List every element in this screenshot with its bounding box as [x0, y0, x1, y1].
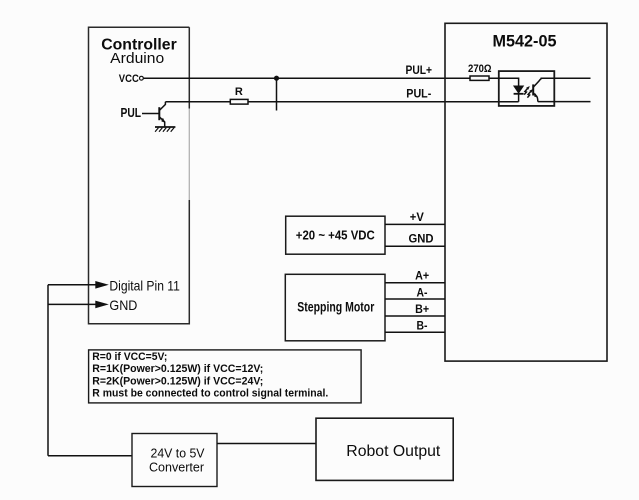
junction node on PUL+ line: [274, 76, 279, 81]
light arrows: [524, 86, 533, 97]
robot output box: [316, 418, 453, 480]
wire +V: [385, 223, 445, 225]
svg-text:24V to 5V: 24V to 5V: [151, 446, 205, 461]
svg-text:M542-05: M542-05: [493, 32, 557, 51]
svg-text:270Ω: 270Ω: [468, 63, 492, 75]
optocoupler LED D1: [514, 86, 524, 102]
svg-text:B-: B-: [417, 319, 428, 333]
wire stub from junction down: [276, 78, 278, 110]
converter box: [132, 434, 217, 487]
svg-text:Robot Output: Robot Output: [346, 443, 441, 460]
terminal VCC circle: [140, 76, 144, 80]
optocoupler phototransistor Q2: [533, 78, 541, 101]
M542-05 box: [445, 23, 607, 361]
svg-text:R: R: [235, 86, 243, 98]
wire A+: [385, 282, 445, 284]
svg-text:PUL: PUL: [121, 106, 142, 120]
wire bottom to converter: [48, 455, 132, 457]
wire optocoupler emitter output: [538, 101, 591, 103]
transistor Q1: [159, 102, 165, 127]
wire converter to robot output: [217, 443, 316, 445]
note box: [89, 350, 362, 403]
wire PUL- transistor collector to resistor R: [165, 101, 230, 103]
svg-text:R must be connected to control: R must be connected to control signal te…: [92, 388, 328, 400]
svg-text:B+: B+: [415, 302, 429, 316]
svg-text:R=0 if VCC=5V;: R=0 if VCC=5V;: [92, 351, 167, 363]
svg-text:PUL-: PUL-: [406, 86, 431, 100]
wire PUL- resistor R to optocoupler LED: [248, 101, 519, 103]
wire A-: [385, 298, 445, 300]
svg-text:A-: A-: [417, 285, 428, 299]
svg-text:GND: GND: [409, 231, 434, 245]
arrow GND pin: [95, 301, 109, 309]
wire PUL+ from VCC terminal to 270 ohm resistor: [144, 77, 470, 79]
svg-text:R=2K(Power>0.125W) if VCC=24V;: R=2K(Power>0.125W) if VCC=24V;: [92, 375, 263, 387]
controller box: [89, 27, 190, 323]
svg-text:Stepping Motor: Stepping Motor: [297, 300, 375, 315]
wire digital pin 11: [48, 284, 96, 286]
wire optocoupler collector output: [541, 77, 591, 79]
svg-text:+20 ~ +45 VDC: +20 ~ +45 VDC: [296, 228, 376, 243]
svg-text:Converter: Converter: [149, 460, 205, 475]
svg-text:GND: GND: [109, 297, 137, 313]
svg-text:+V: +V: [410, 210, 424, 224]
svg-text:A+: A+: [415, 269, 429, 283]
optocoupler LED anode wire: [489, 78, 519, 86]
resistor R: [230, 99, 248, 104]
resistor 270 ohm: [470, 76, 489, 80]
svg-text:Arduino: Arduino: [110, 50, 164, 67]
wire left vertical: [47, 285, 49, 456]
wire GND supply: [385, 245, 445, 247]
wire PUL to transistor base: [142, 113, 159, 115]
svg-text:VCC: VCC: [119, 73, 139, 85]
optocoupler box: [499, 71, 555, 106]
svg-text:R=1K(Power>0.125W) if VCC=12V;: R=1K(Power>0.125W) if VCC=12V;: [92, 363, 263, 375]
power supply box: [286, 216, 385, 254]
ground: [155, 127, 175, 132]
wire GND pin: [48, 303, 96, 305]
arrow digital pin 11: [95, 281, 109, 289]
stepping motor box: [285, 274, 385, 341]
wire B-: [385, 331, 445, 333]
svg-text:Digital Pin 11: Digital Pin 11: [109, 277, 180, 293]
svg-text:PUL+: PUL+: [406, 63, 433, 77]
wire B+: [385, 315, 445, 317]
